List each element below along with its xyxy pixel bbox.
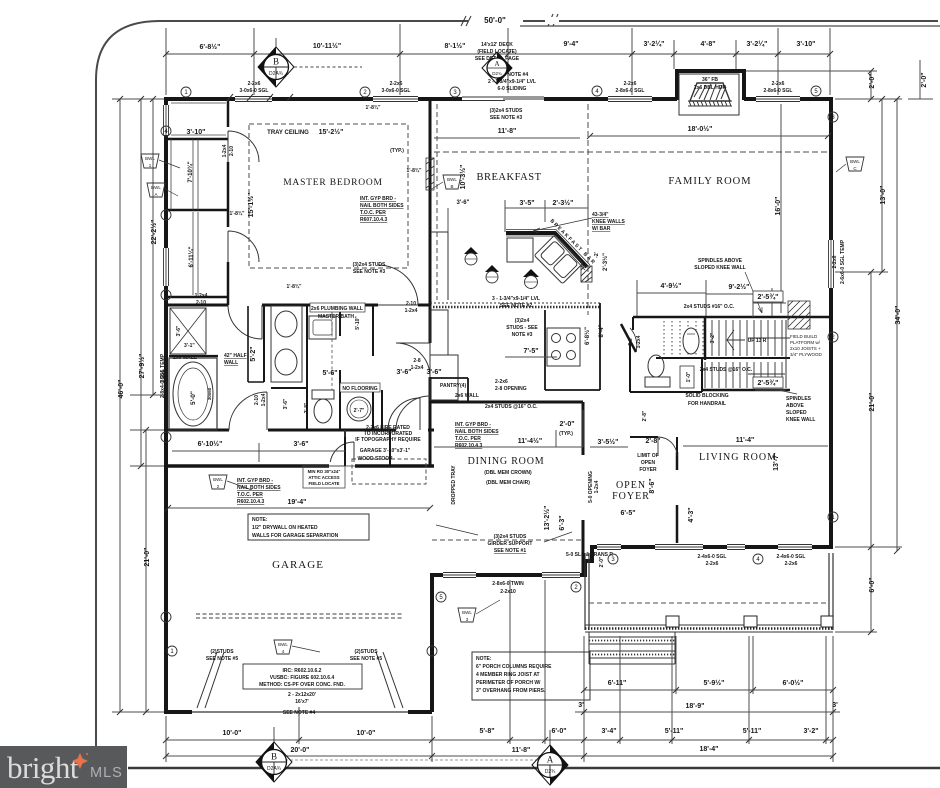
svg-text:(3)2x4 STUDS: (3)2x4 STUDS [353,262,386,268]
svg-text:SEE NOTE #2: SEE NOTE #2 [500,303,532,309]
svg-text:FAMILY ROOM: FAMILY ROOM [668,176,751,187]
bar leader arrow [533,218,592,233]
half wall [169,355,218,357]
svg-text:27'-9½": 27'-9½" [138,354,146,379]
svg-text:2-2x10: 2-2x10 [500,589,516,595]
windows left wall closets [162,105,170,286]
bottom dim row1 [166,580,833,762]
left dim lines [112,99,164,712]
svg-text:WALL: WALL [224,360,238,366]
svg-text:2-2x6: 2-2x6 [248,81,261,87]
svg-text:2x6 WALL: 2x6 WALL [455,393,479,399]
powder room walls [630,340,702,392]
svg-text:5'-6": 5'-6" [322,370,337,377]
svg-text:INT. GYP BRD -: INT. GYP BRD - [360,196,396,202]
wall gap whites [329,462,355,470]
master wc toilet [312,390,334,423]
svg-text:BWL: BWL [145,156,155,161]
svg-text:9'-4": 9'-4" [563,41,578,48]
svg-text:2-8 OPENING: 2-8 OPENING [495,386,527,392]
svg-text:(3)2x4 STUDS: (3)2x4 STUDS [494,534,527,540]
int gyp dining [455,422,499,449]
kitchen dims [448,200,588,357]
svg-text:6-0 SLIDING: 6-0 SLIDING [498,86,527,92]
svg-text:2'-8": 2'-8" [645,438,660,445]
garage top wall [166,464,434,468]
svg-text:2x6 WALL: 2x6 WALL [173,355,197,361]
windows top wall master [235,95,418,103]
svg-text:ATTIC ACCESS: ATTIC ACCESS [308,475,339,480]
svg-text:2-0: 2-0 [628,338,634,345]
attic access dashed box [303,466,345,488]
garage 19-4 dim [168,507,430,509]
svg-text:2x4 STUDS @16" O.C.: 2x4 STUDS @16" O.C. [485,404,538,410]
svg-text:30x60: 30x60 [207,387,212,400]
top notes [240,42,793,94]
svg-text:1-2x4: 1-2x4 [222,144,228,157]
svg-text:3'-10": 3'-10" [797,41,816,48]
svg-text:14'x12' DECK: 14'x12' DECK [481,42,513,48]
breakfast column dashed x437 [436,104,438,300]
svg-text:KNEE WALLS: KNEE WALLS [592,219,625,225]
bottom dim row2 [166,755,833,757]
svg-text:2-2x6: 2-2x6 [706,561,719,567]
svg-text:SPINDLES ABOVE: SPINDLES ABOVE [698,258,743,264]
svg-text:1'-8¾": 1'-8¾" [407,167,423,174]
svg-text:6'-5": 6'-5" [620,510,635,517]
section marker B bottom [256,727,292,782]
svg-text:T.O.C. PER: T.O.C. PER [237,492,263,498]
window right wall family [827,240,835,288]
kitchen sink [534,235,583,284]
svg-text:2x4 STUDS @16" O.C.: 2x4 STUDS @16" O.C. [700,367,753,373]
svg-text:KNEE WALL: KNEE WALL [786,417,815,423]
svg-text:MLS: MLS [90,765,123,781]
open plan dashed boundary x588 [587,104,589,315]
svg-text:3'-6": 3'-6" [457,200,470,206]
svg-text:D2A¾: D2A¾ [267,766,282,772]
powder sink oval [683,328,699,354]
closet walls [227,99,230,305]
svg-text:6'-0½": 6'-0½" [783,679,804,687]
svg-text:5'-10": 5'-10" [355,316,361,330]
svg-text:OPEN: OPEN [616,480,646,491]
svg-text:3'-1": 3'-1" [184,343,195,349]
svg-text:3'-6": 3'-6" [293,441,308,448]
svg-text:VUSBC: FIGURE 602.10.6.4: VUSBC: FIGURE 602.10.6.4 [270,675,335,681]
svg-text:FOR HANDRAIL: FOR HANDRAIL [688,401,726,407]
boxed label stairs [680,366,694,388]
wood stoop dashed [352,459,426,484]
svg-text:MASTER BATH: MASTER BATH [318,314,354,320]
svg-text:BWL: BWL [213,477,223,482]
svg-text:2-2x6: 2-2x6 [772,81,785,87]
fireplace interior [679,74,739,115]
stair divider wall [704,317,707,360]
svg-text:SLOPED: SLOPED [786,410,807,416]
svg-text:1-2x4: 1-2x4 [195,293,208,299]
top dimension extension lines [166,24,830,95]
svg-text:D2¾: D2¾ [492,71,502,76]
svg-text:SPINDLES: SPINDLES [786,396,812,402]
svg-text:R602.10.4.3: R602.10.4.3 [455,443,482,449]
svg-text:2'-0": 2'-0" [921,72,928,87]
svg-text:10'-11½": 10'-11½" [313,42,341,50]
svg-text:21'-0": 21'-0" [144,548,151,567]
exterior wall outline [166,71,833,714]
svg-text:6'-11": 6'-11" [608,680,627,687]
svg-text:UP 13 R: UP 13 R [748,338,767,344]
svg-text:2'-3½": 2'-3½" [602,253,609,271]
stair south wall [702,389,790,392]
svg-text:11'-8": 11'-8" [498,128,517,135]
door arc closet2 [228,231,259,262]
svg-text:4 MEMBER RING JOIST AT: 4 MEMBER RING JOIST AT [476,672,540,678]
porch left wall [585,553,589,630]
svg-text:R602.10.4.3: R602.10.4.3 [237,499,264,505]
svg-text:8'-6": 8'-6" [649,478,656,493]
LVL beam hatched band kitchen [430,302,600,304]
up arrow stairs [727,330,745,350]
section marker deck A top [482,52,512,84]
svg-text:43-3/4": 43-3/4" [592,212,609,218]
top dims [200,16,816,51]
svg-text:1-2x4: 1-2x4 [636,335,642,348]
svg-text:2-10: 2-10 [196,300,206,306]
porch deck edge [585,625,833,632]
svg-text:2'-5¾": 2'-5¾" [758,293,779,301]
svg-text:(2)STUDS: (2)STUDS [354,649,378,655]
svg-text:FOYER: FOYER [639,467,657,473]
master vanity [271,306,302,382]
stair mid wall [633,317,790,358]
platform hatch right [788,301,810,329]
window markers diamond [464,247,539,289]
svg-text:R607.10.4.3: R607.10.4.3 [360,217,387,223]
brace hatch on center wall [426,158,434,190]
svg-text:6'-3": 6'-3" [559,515,566,530]
svg-text:A: A [547,755,554,765]
svg-text:FOYER: FOYER [612,491,650,502]
svg-text:GIRDER SUPPORT: GIRDER SUPPORT [487,541,532,547]
svg-text:1-2x4: 1-2x4 [594,480,600,493]
svg-text:bright: bright [7,750,79,785]
top double line right half [520,25,940,27]
door arc bath hall right [396,396,430,430]
porch note box [472,652,590,700]
svg-text:NOTE:: NOTE: [476,656,492,662]
right dims rotated [869,72,928,592]
svg-text:OPEN: OPEN [641,460,656,466]
svg-text:2-2x6: 2-2x6 [832,255,838,268]
int gyp hall [237,478,281,505]
ceiling break dashed line family/breakfast [434,151,828,153]
svg-text:3'-2": 3'-2" [803,728,818,735]
powder angled door wall [621,324,636,352]
garage door jamb diagonals [197,652,403,708]
svg-text:IF TOPOGRAPHY REQUIRE: IF TOPOGRAPHY REQUIRE [355,437,421,443]
svg-text:3': 3' [832,702,838,709]
svg-text:LIMIT OF: LIMIT OF [637,453,658,459]
svg-text:BWL: BWL [850,159,860,164]
svg-text:SEE NOTE #4: SEE NOTE #4 [283,710,315,716]
svg-text:ABOVE: ABOVE [786,403,804,409]
svg-text:5'-2": 5'-2" [250,346,257,361]
svg-text:2-2x6: 2-2x6 [785,561,798,567]
svg-text:18'-4": 18'-4" [700,746,719,753]
foyer north wall [630,437,677,452]
deck sliding door breakfast [462,95,544,103]
svg-text:3-0x6-0 SGL: 3-0x6-0 SGL [240,88,269,94]
powder toilet [645,355,670,387]
svg-text:3" OVERHANG FROM PIERS.: 3" OVERHANG FROM PIERS. [476,688,546,694]
svg-text:NOTE #3: NOTE #3 [512,332,533,338]
svg-text:BWL: BWL [278,642,288,647]
family 16-0 vertical [780,104,782,313]
door arc stoop [388,398,420,430]
svg-text:6'-11¼": 6'-11¼" [188,246,195,267]
center wall x430 [429,99,432,466]
svg-text:BREAKFAST: BREAKFAST [477,172,542,183]
svg-text:13'-0": 13'-0" [880,186,887,205]
svg-text:5'-0": 5'-0" [190,391,197,405]
svg-text:IRC: R602.10.6.2: IRC: R602.10.6.2 [283,668,322,674]
dining right wall [582,402,585,575]
master shower [170,308,206,354]
svg-text:2-10: 2-10 [406,301,416,307]
svg-text:3'-6": 3'-6" [396,369,411,376]
svg-text:3 - 1-3/4"x9-1/4" LVL: 3 - 1-3/4"x9-1/4" LVL [492,296,540,302]
svg-text:2-8x4-0 SGL TEMP: 2-8x4-0 SGL TEMP [160,353,166,398]
svg-text:NAIL BOTH SIDES: NAIL BOTH SIDES [455,429,499,435]
bath north wall [166,304,430,307]
breakfast dim line [434,137,580,139]
svg-text:NO FLOORING: NO FLOORING [342,386,377,392]
svg-text:1'-0": 1'-0" [686,371,692,382]
section marker B top [258,38,362,87]
svg-text:3'-4": 3'-4" [601,728,616,735]
svg-text:11'-4½": 11'-4½" [518,437,542,445]
svg-text:6'-8½": 6'-8½" [584,327,591,345]
living dims [683,445,828,447]
svg-text:NOTE:: NOTE: [252,517,268,523]
svg-text:1-2x4: 1-2x4 [405,308,418,314]
kitchen counters [430,232,533,400]
bath texts [310,303,365,312]
svg-text:B: B [450,184,453,189]
svg-text:FIELD BUILD: FIELD BUILD [790,334,818,339]
svg-text:2-2x6: 2-2x6 [495,379,508,385]
svg-text:2-4x6-0 SGL: 2-4x6-0 SGL [777,554,806,560]
stair right stringer [785,320,787,388]
svg-text:2-8x6-0 TWIN: 2-8x6-0 TWIN [492,581,524,587]
svg-text:3'-2¼": 3'-2¼" [747,40,768,48]
svg-text:2 - 2x12x20': 2 - 2x12x20' [288,692,316,698]
svg-text:4'-9½": 4'-9½" [661,282,682,290]
left dims rotated [118,220,158,567]
kitchen island walls [545,303,600,390]
svg-text:7'-5": 7'-5" [523,348,538,355]
svg-text:3-0x6-0 SGL: 3-0x6-0 SGL [382,88,411,94]
tray ceiling dashed rect [249,124,408,268]
svg-text:2'-0": 2'-0" [869,73,876,88]
svg-text:SEE NOTE #1: SEE NOTE #1 [494,548,526,554]
svg-text:2x6 PLUMBING WALL: 2x6 PLUMBING WALL [311,306,363,312]
breakfast bar knee wall [506,230,590,271]
svg-text:2x10 JOISTS +: 2x10 JOISTS + [790,346,821,351]
svg-text:(TYP.): (TYP.) [390,148,404,154]
porch steps [589,632,675,664]
svg-text:1'-8¾": 1'-8¾" [366,104,382,111]
svg-text:3'-5½": 3'-5½" [598,438,619,446]
windows front wall living/foyer [597,543,812,551]
bright MLS logo [0,746,127,788]
svg-text:20'-0": 20'-0" [291,747,310,754]
svg-text:3'-6": 3'-6" [283,398,289,409]
laundry walls [345,430,390,466]
door arc powder [630,328,637,352]
svg-text:W/ BAR: W/ BAR [592,226,611,232]
svg-text:2'-3½": 2'-3½" [553,199,574,207]
svg-text:2'-5¾": 2'-5¾" [758,379,779,387]
svg-text:(DBL MEM CROWN): (DBL MEM CROWN) [484,470,532,476]
dining top wall [430,401,583,404]
svg-text:8'-4": 8'-4" [599,324,605,337]
section marker A bottom [532,730,568,785]
laundry sink [309,316,336,339]
garage drywall note box [248,514,369,540]
svg-text:PLATFORM w/: PLATFORM w/ [790,340,821,345]
svg-text:SEE NOTE #5: SEE NOTE #5 [350,656,382,662]
svg-text:4'-3": 4'-3" [688,507,695,522]
svg-text:MASTER BEDROOM: MASTER BEDROOM [283,178,383,188]
dining dims [434,410,628,447]
closet shelémoving lines [171,139,198,295]
sheet frame bottom dashed [265,759,560,761]
svg-text:SLOPED KNEE WALL: SLOPED KNEE WALL [694,265,745,271]
svg-text:16'-0": 16'-0" [775,197,782,216]
svg-text:1-2x4: 1-2x4 [411,365,424,371]
svg-text:13'-2½": 13'-2½" [543,506,551,531]
svg-text:STUDS - SEE: STUDS - SEE [506,325,538,331]
svg-text:11'-4": 11'-4" [736,437,755,444]
svg-text:D2¾: D2¾ [545,769,556,775]
svg-text:46'-0": 46'-0" [118,380,125,399]
garage door dashed outline [196,614,404,618]
bar end hatch block [581,266,592,282]
svg-text:WALLS FOR GARAGE SEPARATION: WALLS FOR GARAGE SEPARATION [252,533,339,539]
master tub [169,358,217,430]
range [547,328,580,366]
door arc master entry [378,265,418,305]
svg-text:21'-0": 21'-0" [869,393,876,412]
svg-text:50'-0": 50'-0" [484,16,506,25]
wall tick slashes top-left [227,94,293,101]
svg-text:SEE NOTE #5: SEE NOTE #5 [206,656,238,662]
door arc closet1 [228,131,259,162]
svg-text:4'-8": 4'-8" [700,41,715,48]
bottom dims [223,679,839,754]
svg-text:PERIMETER OF PORCH W/: PERIMETER OF PORCH W/ [476,680,541,686]
svg-text:6'-0": 6'-0" [551,728,566,735]
porch dim line2 [575,711,840,713]
svg-text:1'-8¾": 1'-8¾" [287,283,303,290]
BWL pennant flags [141,154,864,654]
svg-text:3'-2": 3'-2" [710,332,716,343]
svg-text:BWL: BWL [447,177,457,182]
svg-text:3'-6": 3'-6" [176,325,182,336]
porch right wall [829,553,833,630]
family room dim line [590,135,828,137]
svg-text:5'-9½": 5'-9½" [704,679,725,687]
svg-text:6'-10½": 6'-10½" [198,440,223,448]
svg-text:BWL: BWL [462,610,472,615]
svg-text:TRAY CEILING: TRAY CEILING [267,130,309,136]
svg-text:5'-11": 5'-11" [665,728,684,735]
svg-text:2-6x6-0 SGL TEMP: 2-6x6-0 SGL TEMP [840,239,846,284]
sheet frame bottom line [128,767,940,770]
svg-text:15'-2½": 15'-2½" [319,128,344,136]
flag leader lines [159,160,846,652]
door arc foyer closet [658,437,677,456]
svg-text:2'-0": 2'-0" [559,421,574,428]
porch posts [666,616,833,627]
hall closet lines x248-262 [248,306,264,382]
svg-text:A: A [154,192,157,197]
right dim lines [746,71,902,632]
svg-text:6'-0": 6'-0" [869,577,876,592]
svg-text:(3)2x4 STUDS: (3)2x4 STUDS [490,108,523,114]
water heater circle [347,397,371,421]
svg-text:3'-5": 3'-5" [519,200,534,207]
svg-text:5'-11": 5'-11" [743,728,762,735]
windows dining front wall [443,571,580,579]
svg-text:2-10: 2-10 [229,146,235,156]
svg-text:2-4x6-0 SGL: 2-4x6-0 SGL [698,554,727,560]
svg-text:5-0 SLS & TRANS R: 5-0 SLS & TRANS R [566,552,613,558]
svg-text:16'x7': 16'x7' [295,699,309,705]
svg-text:(3)2x4: (3)2x4 [515,318,530,324]
int gyp master [360,196,404,223]
svg-text:2-8x6-0 SGL: 2-8x6-0 SGL [616,88,645,94]
svg-text:15'-1½": 15'-1½" [247,193,255,218]
svg-text:(TYP.): (TYP.) [559,431,573,437]
svg-text:FIELD LOCATE: FIELD LOCATE [309,481,340,486]
svg-text:SOLID BLOCKING: SOLID BLOCKING [685,393,728,399]
svg-text:13'-7: 13'-7 [773,455,780,471]
svg-text:3'-6": 3'-6" [426,369,441,376]
svg-text:2x6 DBL HDR: 2x6 DBL HDR [694,85,727,91]
svg-text:SEE NOTE #3: SEE NOTE #3 [490,115,522,121]
svg-text:1-2x4: 1-2x4 [261,393,267,406]
hall dim line [172,430,345,462]
door arc bath [228,305,262,339]
svg-text:METHOD: CS-PF OVER CONC. FND.: METHOD: CS-PF OVER CONC. FND. [259,682,345,688]
svg-text:BWL: BWL [151,185,161,190]
svg-text:18'-0½": 18'-0½" [688,125,713,133]
svg-text:D2A¾: D2A¾ [269,71,284,77]
svg-text:8'-1½": 8'-1½" [445,42,466,50]
hall dashed line [331,306,333,390]
garage notes [206,425,421,716]
svg-text:3'-10": 3'-10" [187,129,206,136]
svg-text:GARAGE 3'-10"x3'-1": GARAGE 3'-10"x3'-1" [360,448,411,454]
svg-text:NAIL BOTH SIDES: NAIL BOTH SIDES [360,203,404,209]
stoop door wall [381,390,383,430]
svg-text:36" FB: 36" FB [702,77,718,83]
svg-text:7'-10¾": 7'-10¾" [187,161,194,182]
door arc master hall [396,343,430,377]
